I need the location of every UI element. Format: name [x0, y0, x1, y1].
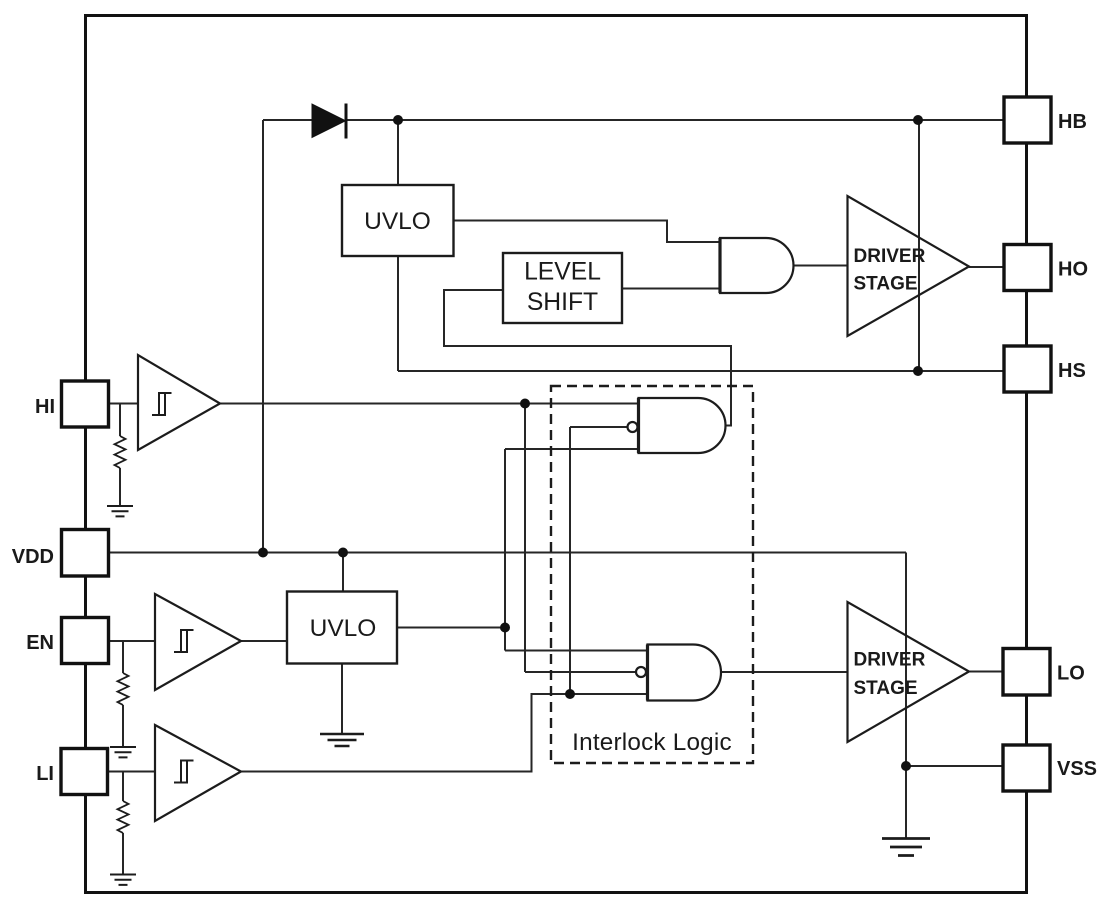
svg-text:UVLO: UVLO	[364, 208, 431, 235]
svg-text:DRIVER: DRIVER	[854, 246, 926, 267]
svg-text:HI: HI	[35, 396, 55, 418]
svg-text:LO: LO	[1057, 663, 1085, 685]
svg-text:Interlock Logic: Interlock Logic	[572, 729, 732, 756]
svg-text:SHIFT: SHIFT	[527, 289, 598, 316]
svg-text:DRIVER: DRIVER	[854, 650, 926, 671]
svg-text:EN: EN	[26, 632, 54, 654]
svg-text:VDD: VDD	[12, 546, 54, 568]
svg-text:HO: HO	[1058, 259, 1088, 281]
svg-text:HS: HS	[1058, 360, 1086, 382]
svg-text:STAGE: STAGE	[854, 274, 918, 295]
svg-text:LI: LI	[36, 763, 54, 785]
svg-text:STAGE: STAGE	[854, 678, 918, 699]
svg-text:VSS: VSS	[1057, 758, 1097, 780]
svg-text:UVLO: UVLO	[310, 615, 377, 642]
svg-text:LEVEL: LEVEL	[524, 259, 601, 286]
svg-text:HB: HB	[1058, 111, 1087, 133]
